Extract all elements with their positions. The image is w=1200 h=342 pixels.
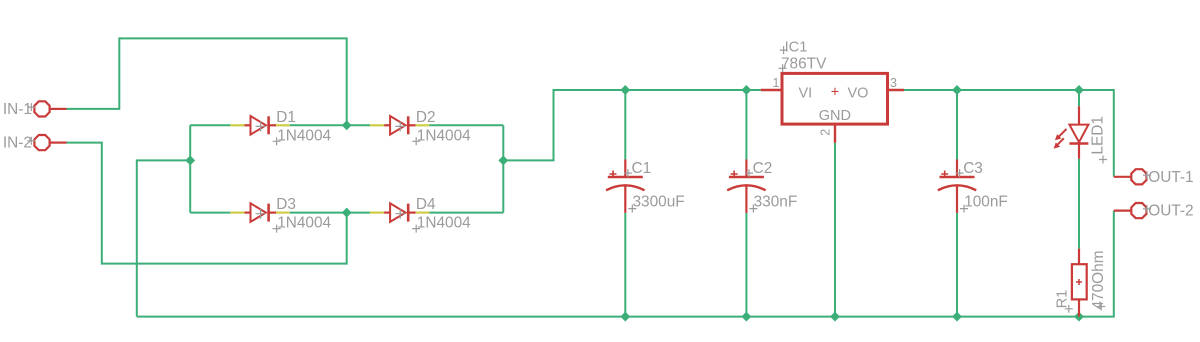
svg-text:786TV: 786TV: [781, 56, 827, 73]
pin 1: [761, 89, 782, 91]
diode D4 1N4004: [370, 196, 471, 232]
diode D1 1N4004: [230, 109, 331, 145]
svg-text:GND: GND: [819, 108, 851, 124]
svg-text:LED1: LED1: [1090, 116, 1107, 155]
svg-text:D1: D1: [276, 109, 296, 126]
junction LED top: [1074, 85, 1084, 95]
svg-text:1: 1: [773, 76, 780, 90]
wire regulator GND pin 2 to bottom rail: [834, 143, 836, 317]
wire LED to R1: [1078, 159, 1080, 249]
diode D3 1N4004: [230, 196, 331, 232]
svg-text:VI: VI: [799, 85, 813, 101]
wire V+ from bridge to regulator pin 1 rail: [503, 90, 760, 160]
junction C2 bottom: [741, 312, 751, 322]
value 786TV: [779, 64, 787, 72]
wire IN-2 net: pad down and around to D3/D4 junction: [67, 143, 347, 264]
wire D3 row segments: [190, 212, 230, 214]
svg-text:1N4004: 1N4004: [277, 215, 331, 232]
connector OUT-1: [1114, 169, 1194, 186]
svg-text:OUT-2: OUT-2: [1148, 203, 1193, 220]
svg-text:+: +: [831, 85, 839, 101]
svg-text:D4: D4: [416, 196, 436, 213]
svg-text:C1: C1: [632, 160, 652, 177]
resistor R1 470Ohm: [1055, 249, 1107, 317]
svg-text:100nF: 100nF: [964, 193, 1008, 210]
connector OUT-2: [1114, 203, 1194, 220]
junction reg GND bottom: [830, 312, 840, 322]
wire VO rail from regulator pin 3 to OUT-1: [904, 90, 1114, 177]
junction D1-D2 / IN-1: [342, 120, 352, 130]
junction C1 bottom: [620, 312, 630, 322]
svg-text:VO: VO: [848, 85, 869, 101]
svg-text:IN-2: IN-2: [3, 135, 32, 152]
wire GND branch from left node to bottom rail: [137, 160, 190, 316]
wire C3 branch: [956, 90, 958, 160]
svg-text:OUT-1: OUT-1: [1148, 169, 1193, 186]
svg-text:1N4004: 1N4004: [417, 127, 471, 144]
connector IN-2: [3, 135, 67, 152]
svg-text:C2: C2: [753, 160, 773, 177]
connector IN-1: [3, 101, 67, 118]
name R1: [1065, 305, 1073, 313]
svg-text:470Ohm: 470Ohm: [1090, 250, 1107, 309]
wire D1 row segments: [190, 124, 230, 126]
svg-text:C3: C3: [963, 160, 983, 177]
value 470Ohm: [1097, 303, 1105, 311]
svg-text:IC1: IC1: [785, 40, 808, 56]
junction left node / GND branch: [185, 155, 195, 165]
junction C3 top: [952, 85, 962, 95]
capacitor C3 100nF: [938, 160, 1008, 213]
capacitor C1 3300uF: [606, 160, 685, 213]
svg-text:2: 2: [819, 129, 833, 136]
wire left bridge node vertical (D1/D3 anodes): [189, 125, 191, 212]
capacitor C2 330nF: [727, 160, 797, 213]
svg-text:1N4004: 1N4004: [417, 215, 471, 232]
svg-text:3: 3: [890, 76, 897, 90]
pin 2: [834, 124, 836, 143]
wire GND bottom rail to OUT-2: [137, 211, 1114, 317]
diode D2 1N4004: [370, 109, 471, 145]
emission arrow 1: [1059, 129, 1067, 137]
junction C1 top: [620, 85, 630, 95]
junction C3 bottom: [952, 312, 962, 322]
junction D3-D4 / IN-2: [342, 208, 352, 218]
svg-text:IN-1: IN-1: [3, 101, 32, 118]
pin 3: [888, 89, 905, 91]
svg-text:1N4004: 1N4004: [277, 127, 331, 144]
wire C2 branch: [745, 90, 747, 160]
name LED1: [1099, 156, 1107, 164]
wire C1 branch: [624, 90, 626, 160]
svg-text:D3: D3: [276, 196, 296, 213]
emission arrow 2: [1057, 138, 1064, 145]
junction C2 top: [741, 85, 751, 95]
wire LED branch top: [1078, 90, 1080, 106]
regulator IC1 786TV: [761, 40, 904, 143]
svg-text:330nF: 330nF: [754, 193, 798, 210]
svg-text:3300uF: 3300uF: [633, 193, 685, 210]
LED LED1: [1054, 106, 1107, 163]
svg-text:R1: R1: [1055, 290, 1071, 309]
name IC1: [780, 46, 788, 54]
svg-text:D2: D2: [416, 109, 436, 126]
junction R1 bottom: [1074, 312, 1084, 322]
junction right node / V+: [498, 155, 508, 165]
wire IN-1 net: pad to top loop down to D1/D2 junction: [67, 38, 347, 125]
wire right bridge node vertical (D2/D4 cathodes): [502, 125, 504, 212]
